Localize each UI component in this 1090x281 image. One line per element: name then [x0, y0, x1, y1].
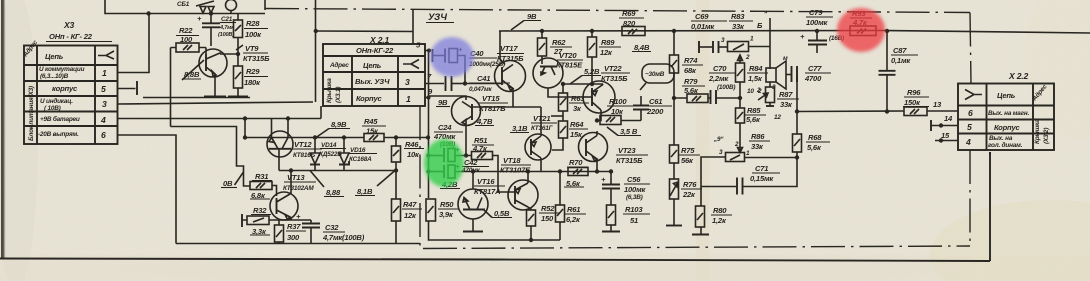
9V rail — [499, 31, 1090, 34]
wire R22 left down — [170, 48, 172, 127]
stub to X2.1 frame column — [320, 106, 322, 119]
frame right edge lower — [969, 150, 971, 247]
border vertical below table — [989, 152, 991, 155]
resistor R52 — [527, 210, 536, 226]
wire collector VT22 — [563, 83, 603, 85]
transistor VT23 — [579, 133, 608, 162]
wire 0V branch — [171, 127, 251, 187]
border right vertical — [989, 152, 991, 261]
speaker — [766, 68, 776, 82]
capacitor C21 — [210, 14, 212, 23]
capacitor C24 — [427, 136, 429, 138]
connector fork symbol X2.2 — [965, 90, 982, 100]
transistor VT9 — [199, 49, 227, 77]
bottom common rail — [176, 243, 420, 245]
UZCH block dash-dot frame — [265, 9, 971, 249]
scan noise overlay — [0, 0, 1, 1]
long vertical from top cut — [315, 0, 317, 102]
connector X2.2 table — [958, 84, 1054, 151]
switch lever cut at top — [196, 1, 214, 6]
resistor R85 — [736, 108, 745, 123]
drawing border bottom line — [0, 259, 990, 262]
connector arrow marks — [200, 7, 214, 14]
resistor R64 — [562, 111, 564, 121]
zener VD16 — [342, 135, 346, 139]
transistor VT21 — [525, 134, 551, 160]
diode VD14 — [313, 135, 317, 139]
capacitor C71 — [701, 186, 736, 188]
transistor VT17 — [495, 61, 526, 92]
frame drop to X2.1 table — [412, 10, 414, 45]
capacitor C77 — [786, 74, 791, 76]
connector fork symbol X2.1 — [403, 60, 419, 69]
node dot pin1 junction — [146, 11, 150, 15]
capacitor C70 — [711, 90, 717, 104]
transistor VT13 — [270, 192, 298, 220]
transistor VT15 — [452, 97, 481, 126]
resistor R47 — [395, 171, 397, 200]
connector X2.1 table — [323, 44, 425, 106]
common bar wire — [143, 97, 250, 99]
frame bottom edge — [423, 246, 970, 249]
resistor R84 — [736, 63, 745, 82]
wire pin4 long — [118, 118, 322, 120]
paper tone variations — [0, 255, 1090, 281]
frame top edge — [265, 9, 970, 13]
capacitor C61 — [640, 110, 642, 121]
transistor VT20 — [533, 58, 563, 88]
trimmer R76 — [670, 179, 679, 199]
connector X3 table — [24, 46, 118, 145]
bubble ~30mV — [642, 64, 674, 83]
wire pin1 to top — [118, 14, 150, 73]
frame stub top-left corner — [264, 0, 266, 10]
left scan edge — [1, 0, 4, 258]
blue marker highlight — [430, 37, 474, 77]
transistor VT12 — [267, 131, 293, 157]
red marker highlight — [837, 8, 885, 52]
resistor R50 — [426, 199, 436, 221]
R74 column from rail — [672, 29, 676, 33]
wire 8,9V net — [245, 137, 364, 139]
capacitor C87 — [886, 31, 888, 71]
frame left edge below X2.1 — [419, 106, 421, 247]
capacitor C42 — [426, 169, 430, 173]
wire pin3 long — [118, 102, 314, 104]
resistor R80 — [696, 206, 705, 227]
transistor VT18 — [508, 180, 538, 210]
capacitor C41 — [425, 83, 444, 85]
top supply wire — [105, 0, 265, 14]
resistor R87 trimmer — [769, 82, 771, 88]
capacitor C56 — [609, 169, 613, 173]
9V wire to VT15 — [429, 96, 467, 100]
wire down from pin4 net — [244, 119, 246, 138]
capacitor C40 electrolytic — [432, 49, 434, 62]
resistor R63 — [562, 84, 564, 93]
node dot pin4 branch — [243, 116, 247, 120]
resistor R37 — [278, 220, 280, 225]
resistor R103 — [607, 205, 616, 225]
measured voltage 8,8V — [182, 60, 204, 80]
corpus vertical wire — [428, 51, 430, 138]
label VT9 — [236, 45, 243, 50]
resistor R68 — [793, 134, 802, 152]
wire pin5 with bar end — [118, 88, 136, 90]
transistor VT22 — [583, 81, 615, 113]
resistor R61 — [558, 169, 562, 173]
wire to UZCH frame — [316, 30, 413, 33]
transistor VT16 — [458, 189, 488, 219]
frame right edge upper — [970, 13, 971, 84]
wire output row — [797, 110, 904, 113]
node dot C21 — [209, 11, 213, 15]
green marker highlight — [424, 139, 464, 187]
wire pin6 down-right — [118, 135, 177, 244]
resistor R62 — [540, 29, 544, 33]
capacitor C79 on rail — [815, 29, 819, 33]
lamp HL cut at top — [226, 0, 237, 11]
collector wire row — [279, 170, 396, 172]
resistor R75 — [673, 98, 675, 145]
resistor R89 — [590, 29, 594, 33]
VT17 emitter to VT15 base — [472, 89, 513, 108]
connector fork symbol X3 — [98, 51, 114, 59]
